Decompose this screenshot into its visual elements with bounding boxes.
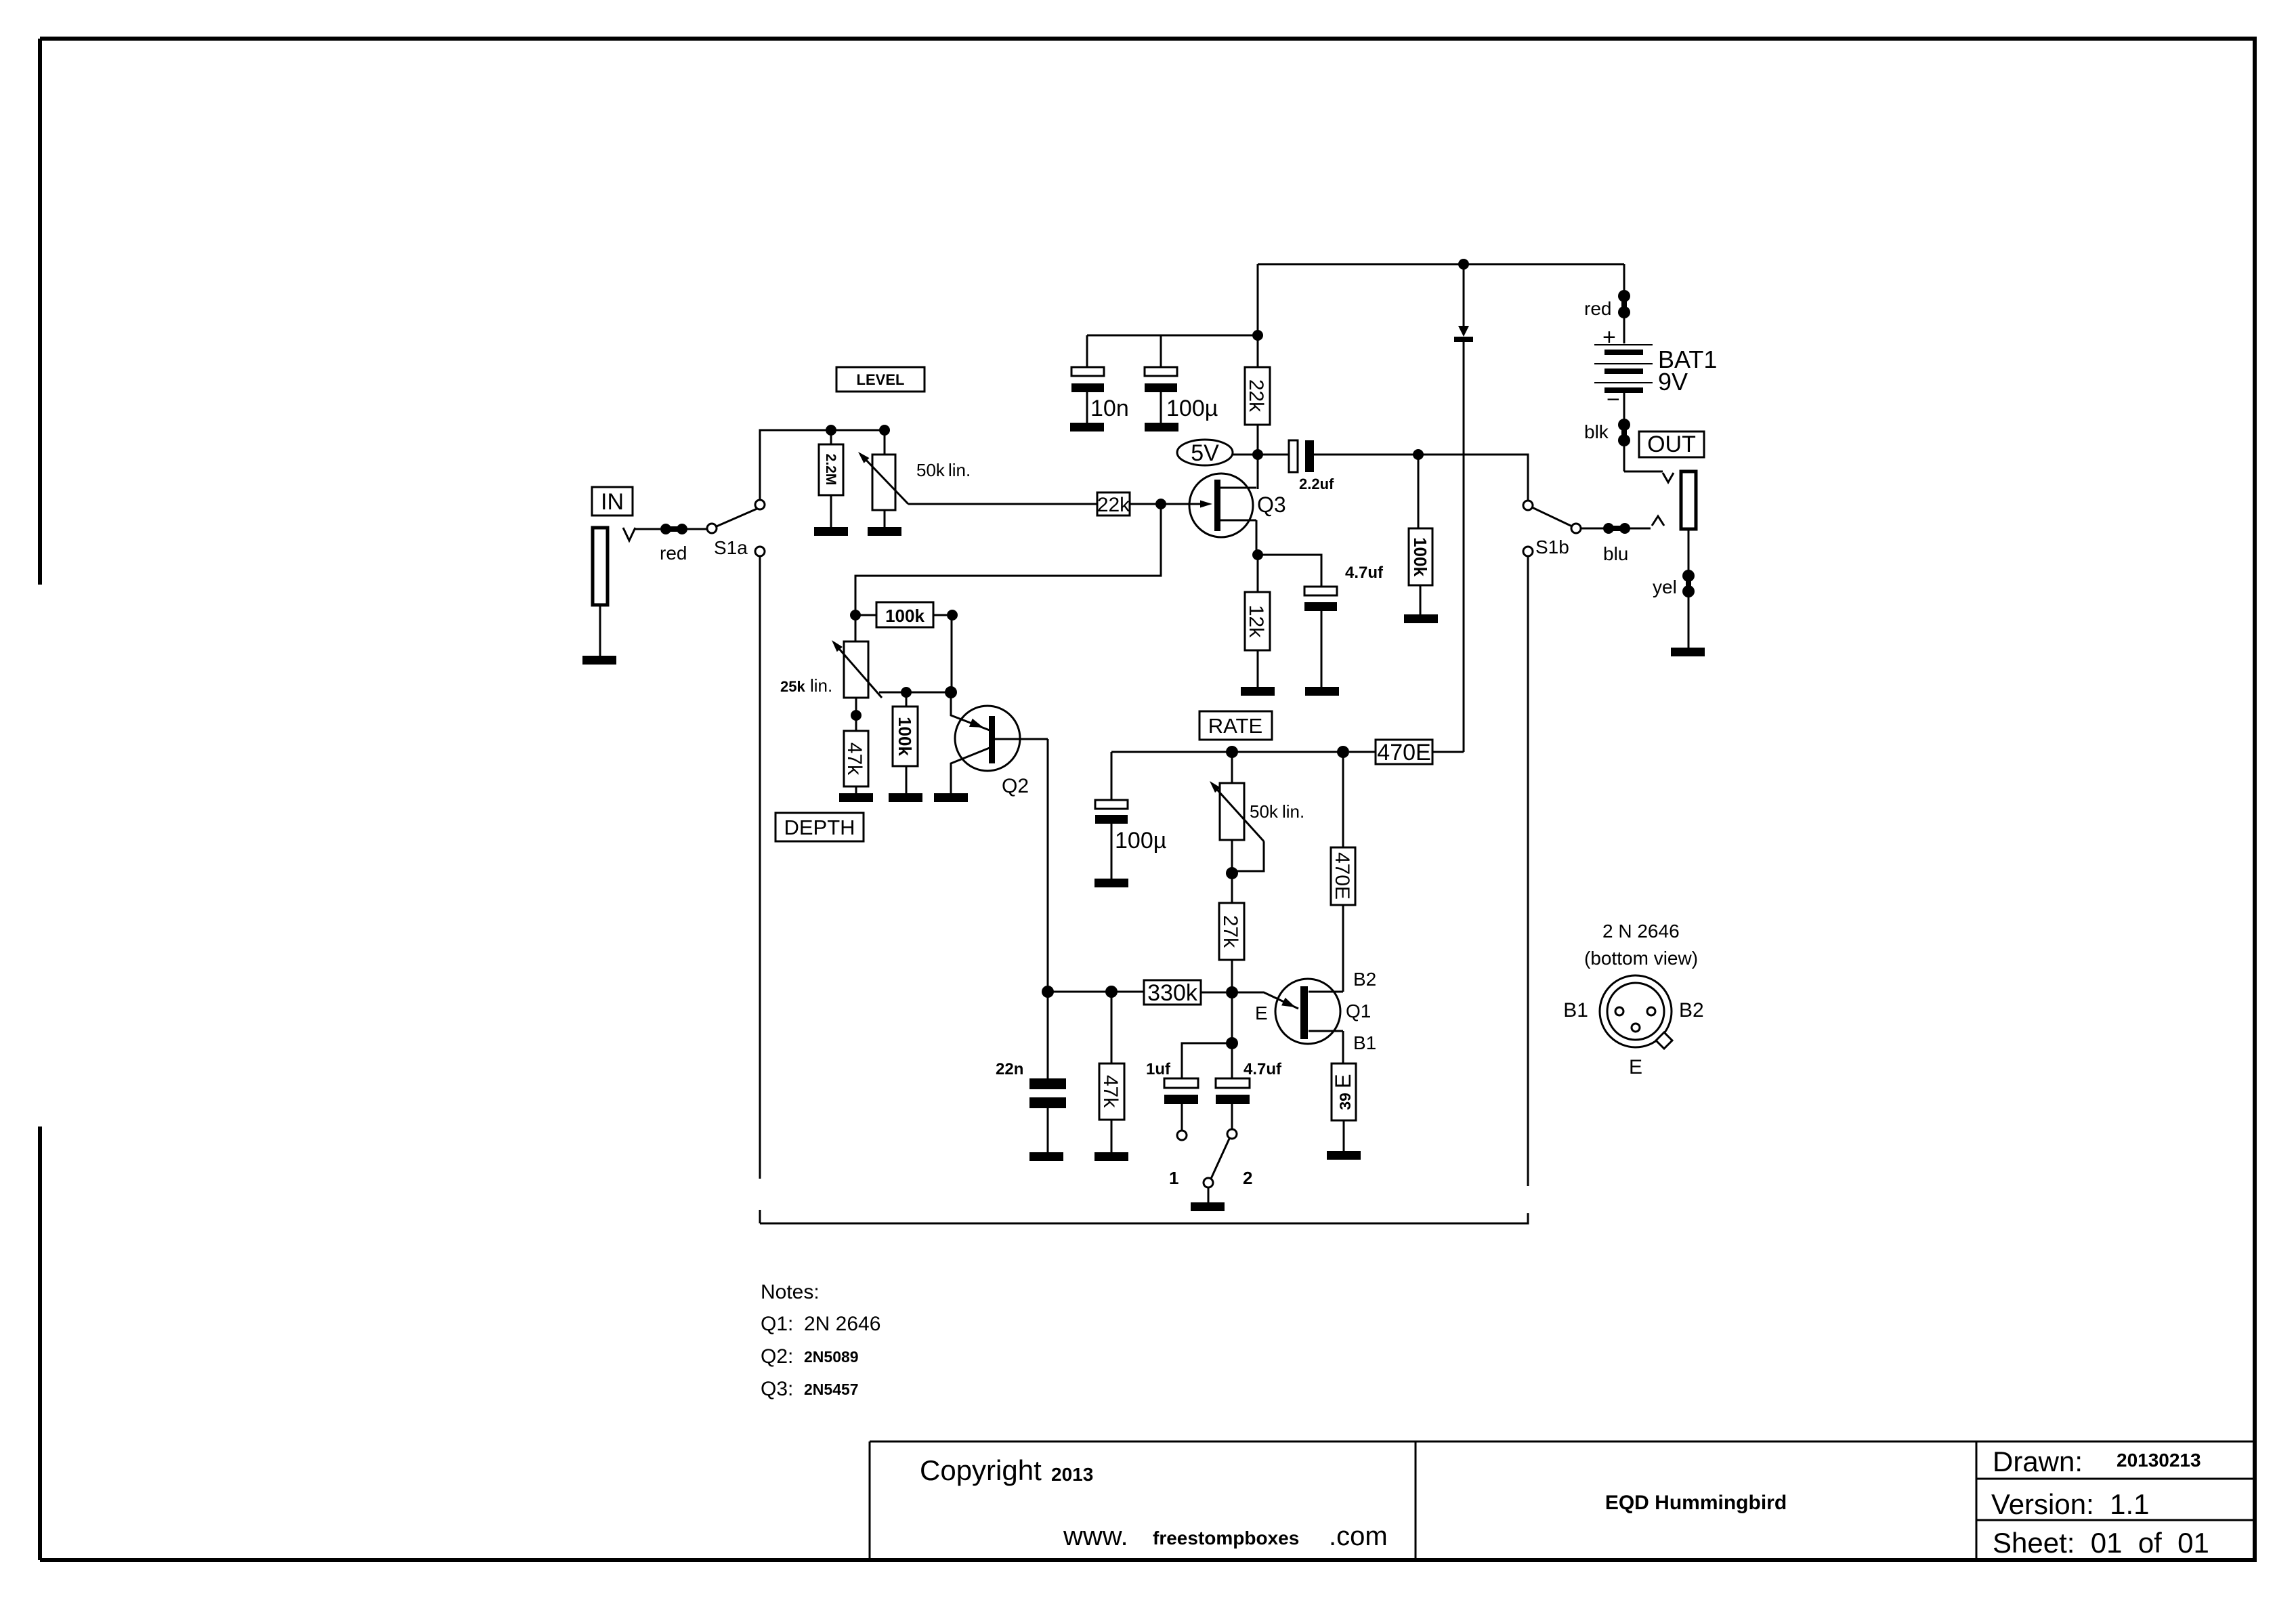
wire 470E to Q1 B2 xyxy=(1342,905,1344,992)
wire to 1uf xyxy=(1182,1043,1232,1078)
svg-text:47k: 47k xyxy=(843,742,866,776)
svg-text:100µ: 100µ xyxy=(1115,828,1166,854)
svg-text:Q3: Q3 xyxy=(1257,492,1286,517)
capacitor 22n xyxy=(1047,992,1049,1078)
node junction Q3 source xyxy=(1252,549,1263,560)
svg-text:Q1: Q1 xyxy=(1346,1001,1371,1022)
svg-text:22k: 22k xyxy=(1245,379,1267,413)
wire to 100u rate xyxy=(1111,752,1113,800)
svg-text:100µ: 100µ xyxy=(1166,396,1218,421)
resistor 39E xyxy=(1332,1064,1356,1120)
svg-text:50k: 50k xyxy=(916,460,945,480)
wire S1b to OUT tip xyxy=(1581,528,1651,530)
svg-text:2: 2 xyxy=(1243,1168,1252,1188)
wire rate rail xyxy=(1111,751,1343,753)
svg-text:2.2M: 2.2M xyxy=(823,454,838,486)
svg-text:Q2: Q2 xyxy=(1002,775,1029,797)
svg-text:yel: yel xyxy=(1653,576,1677,597)
resistor 22k vertical xyxy=(1245,367,1270,425)
node junction Q2 base/330k xyxy=(1042,986,1054,998)
wire 47k to ground xyxy=(855,786,857,793)
svg-text:blk: blk xyxy=(1584,421,1609,442)
svg-text:B2: B2 xyxy=(1353,969,1376,990)
wire 10n to ground xyxy=(1086,392,1088,423)
wire S1a up to level rail xyxy=(760,430,885,500)
wire 22k to 5V node xyxy=(1257,425,1259,489)
svg-text:E: E xyxy=(1255,1003,1268,1024)
yel wire splice dots xyxy=(1682,570,1695,582)
node junction 47k top xyxy=(1105,986,1118,998)
OUT jack tip contact xyxy=(1652,516,1664,526)
wire to 2.2M xyxy=(830,430,832,444)
wire down to wiper line xyxy=(951,615,953,692)
svg-text:22n: 22n xyxy=(996,1060,1023,1078)
wire Q3 source down xyxy=(1256,520,1258,592)
capacitor 100u supply xyxy=(1145,367,1177,376)
resistor 100k feedback xyxy=(876,602,933,627)
jack J2 OUT xyxy=(1681,471,1696,529)
node RATE label xyxy=(1199,711,1272,740)
wire 39E to ground xyxy=(1343,1120,1345,1151)
wire OUT jack sleeve xyxy=(1688,529,1690,648)
wire S1b lower to bottom rail xyxy=(760,556,1528,1223)
resistor 12k xyxy=(1245,592,1270,650)
svg-text:Version: 1.1: Version: 1.1 xyxy=(1991,1488,2149,1520)
svg-text:25k: 25k xyxy=(780,678,805,695)
ground below 2.2M xyxy=(814,527,848,536)
node junction wiper/Q2 emitter xyxy=(945,686,957,698)
transistor Q3 xyxy=(1189,473,1253,537)
potentiometer RATE 50k lin xyxy=(1231,752,1233,783)
ground below LEVEL pot xyxy=(868,527,901,536)
node junction 100k right xyxy=(947,610,958,620)
ground below 12k xyxy=(1241,687,1275,696)
svg-text:100k: 100k xyxy=(885,606,924,626)
svg-text:10n: 10n xyxy=(1090,396,1129,421)
svg-text:.com: .com xyxy=(1329,1521,1388,1551)
ground below 100u xyxy=(1145,423,1178,431)
wire cap rail xyxy=(1087,335,1258,337)
svg-text:S1b: S1b xyxy=(1535,536,1569,557)
node 5V xyxy=(1177,440,1233,465)
svg-text:lin.: lin. xyxy=(810,675,832,696)
svg-text:IN: IN xyxy=(601,489,624,515)
wire 100u to ground xyxy=(1160,392,1162,423)
node junction on level rail xyxy=(826,425,836,436)
wire B1 to 39E xyxy=(1342,1031,1344,1064)
OUT jack ring contact xyxy=(1663,473,1674,482)
wire 12k to ground xyxy=(1257,650,1259,687)
wire 4.7uf to ground xyxy=(1321,611,1323,687)
ground below 10n xyxy=(1070,423,1104,431)
svg-text:LEVEL: LEVEL xyxy=(857,371,905,388)
svg-text:Q2:: Q2: xyxy=(761,1345,793,1368)
node junction Q1 emitter xyxy=(1226,986,1238,998)
resistor 330k xyxy=(1144,980,1201,1005)
svg-text:22k: 22k xyxy=(1097,494,1130,516)
node junction 470E top xyxy=(1337,746,1349,758)
node LEVEL label xyxy=(836,367,924,392)
svg-text:330k: 330k xyxy=(1147,980,1198,1006)
svg-text:1uf: 1uf xyxy=(1146,1060,1171,1078)
svg-text:(bottom view): (bottom view) xyxy=(1584,948,1698,969)
svg-text:B1: B1 xyxy=(1353,1032,1376,1053)
svg-text:www.: www. xyxy=(1063,1521,1128,1551)
svg-text:OUT: OUT xyxy=(1647,431,1696,457)
svg-text:B1: B1 xyxy=(1563,999,1588,1022)
wire pot bottom to 27k xyxy=(1231,840,1233,903)
IN jack tip contact xyxy=(623,528,635,541)
svg-text:100k: 100k xyxy=(1410,537,1430,576)
svg-text:5V: 5V xyxy=(1191,440,1219,466)
svg-text:47k: 47k xyxy=(1099,1075,1122,1108)
wire 100k to ground xyxy=(906,766,908,793)
ground below 100k xyxy=(1404,614,1438,623)
ground below 39E xyxy=(1327,1151,1361,1160)
blk battery splice dots xyxy=(1618,419,1630,431)
node junction above 100k xyxy=(1413,449,1424,460)
ground IN jack xyxy=(582,656,616,665)
transistor Q2 xyxy=(955,706,1020,771)
resistor 470E vertical xyxy=(1342,752,1344,847)
svg-text:Drawn:: Drawn: xyxy=(1993,1446,2083,1477)
svg-text:Q3:: Q3: xyxy=(761,1378,793,1400)
wire to LEVEL pot xyxy=(884,430,886,455)
svg-text:2N5089: 2N5089 xyxy=(804,1348,859,1366)
svg-text:S1a: S1a xyxy=(714,537,748,558)
svg-text:1: 1 xyxy=(1169,1168,1178,1188)
resistor 100k output xyxy=(1409,528,1432,585)
potentiometer LEVEL 50k lin xyxy=(872,455,895,510)
wire source to 4.7uf xyxy=(1262,555,1321,587)
wire LEVEL wiper to 22k xyxy=(908,503,1097,505)
wire rail to battery xyxy=(1623,264,1625,343)
svg-text:red: red xyxy=(1584,298,1611,319)
svg-text:Sheet: 01 of 01: Sheet: 01 of 01 xyxy=(1993,1527,2209,1559)
svg-text:RATE: RATE xyxy=(1208,714,1262,738)
wire 100u to ground xyxy=(1111,824,1113,879)
svg-text:39 E: 39 E xyxy=(1331,1074,1355,1110)
transistor Q1 xyxy=(1275,979,1340,1044)
capacitor 4.7uf timing xyxy=(1216,1078,1250,1088)
switch S2 timing selector xyxy=(1211,1139,1229,1179)
potentiometer DEPTH 25k lin xyxy=(855,615,857,641)
resistor 100k depth divider xyxy=(906,692,908,707)
wire red xyxy=(682,528,708,530)
ground Q2 collector xyxy=(934,793,968,802)
wire 22k drop from rail xyxy=(1257,264,1259,367)
wire 25k wiper line xyxy=(879,692,951,694)
svg-text:E: E xyxy=(1629,1056,1642,1078)
wire 47k to ground xyxy=(1111,1120,1113,1152)
wire IN jack sleeve to ground xyxy=(599,605,601,656)
node DEPTH label xyxy=(775,813,864,841)
node junction timing caps xyxy=(1226,1037,1238,1049)
svg-text:27k: 27k xyxy=(1219,915,1241,948)
node junction cap rail xyxy=(1252,330,1263,341)
capacitor 10n xyxy=(1071,367,1104,376)
wire 22k to Q3 gate xyxy=(1130,503,1204,505)
jack J1 IN xyxy=(593,528,608,605)
ground below 100k divider xyxy=(889,793,922,802)
resistor 47k depth xyxy=(844,731,868,786)
wire 2.2M to ground xyxy=(830,495,832,527)
wire S1a lower to bottom rail xyxy=(759,556,761,1223)
svg-text:4.7uf: 4.7uf xyxy=(1243,1060,1282,1078)
ground below 22n xyxy=(1029,1152,1063,1161)
blu wire splice dots xyxy=(1603,523,1614,534)
wire RATE wiper loop xyxy=(1232,841,1264,871)
node junction depth top xyxy=(850,610,861,620)
diode D1 xyxy=(1463,264,1465,326)
capacitor 2.2uf xyxy=(1289,440,1298,472)
node junction wiper/bottom xyxy=(1226,867,1238,879)
svg-text:4.7uf: 4.7uf xyxy=(1345,564,1384,582)
switch S1b xyxy=(1523,501,1533,510)
ground below 47k osc xyxy=(1094,1152,1128,1161)
svg-text:EQD Hummingbird: EQD Hummingbird xyxy=(1605,1492,1787,1514)
svg-text:B2: B2 xyxy=(1679,999,1704,1022)
wire 100k to ground xyxy=(1420,585,1422,614)
capacitor 1uf xyxy=(1164,1078,1198,1088)
wire 25k to 47k xyxy=(855,698,857,731)
resistor 47k osc xyxy=(1111,992,1113,1064)
svg-text:freestompboxes: freestompboxes xyxy=(1153,1528,1299,1549)
wire to 100k xyxy=(1418,455,1420,528)
svg-text:lin.: lin. xyxy=(948,460,971,480)
wire LEVEL pot to ground xyxy=(884,510,886,527)
svg-text:2 N 2646: 2 N 2646 xyxy=(1602,921,1680,942)
ground below 4.7uf xyxy=(1305,687,1339,696)
red battery splice dots xyxy=(1618,290,1630,302)
svg-text:2N5457: 2N5457 xyxy=(804,1381,859,1398)
node IN label xyxy=(592,487,633,515)
capacitor 100u rate xyxy=(1095,800,1128,809)
svg-text:12k: 12k xyxy=(1245,605,1267,638)
svg-text:blu: blu xyxy=(1603,543,1628,564)
title block xyxy=(870,1441,2255,1560)
ground below 100u rate xyxy=(1094,879,1128,887)
red wire splice dots xyxy=(660,524,671,534)
node OUT label xyxy=(1639,431,1704,457)
wire gate junction down to depth feedback xyxy=(855,504,1161,615)
index tab xyxy=(1656,1032,1672,1049)
wire battery to OUT jack ring xyxy=(1624,471,1663,473)
capacitor 4.7uf source bypass xyxy=(1304,587,1337,595)
node junction wiper/100k xyxy=(901,687,912,698)
wire 22n to ground xyxy=(1047,1106,1049,1152)
wire 5V node to 2.2uf xyxy=(1262,454,1289,456)
wire 4.7uf to switch pole 2 xyxy=(1231,1104,1233,1129)
node junction below 25k xyxy=(851,710,862,721)
ground OUT jack xyxy=(1671,648,1705,656)
wire 330k rail xyxy=(1048,991,1144,993)
svg-text:2.2uf: 2.2uf xyxy=(1299,476,1334,492)
wire Q2 base down xyxy=(1047,739,1049,992)
svg-text:9V: 9V xyxy=(1658,368,1688,396)
wire battery minus xyxy=(1623,393,1625,471)
wire 1uf to switch pole 1 xyxy=(1181,1104,1183,1131)
pin B1 xyxy=(1615,1007,1623,1015)
svg-text:20130213: 20130213 xyxy=(2117,1450,2201,1471)
pin E xyxy=(1632,1024,1640,1032)
node junction at Q3 gate xyxy=(1155,499,1166,509)
svg-text:red: red xyxy=(660,543,687,564)
svg-text:−: − xyxy=(1607,387,1620,413)
svg-text:+: + xyxy=(1602,324,1616,350)
wire to 100u xyxy=(1160,335,1162,367)
wire tip to S1a xyxy=(634,528,660,530)
switch S1a xyxy=(707,524,717,533)
node junction diode top xyxy=(1458,259,1469,270)
svg-text:50k: 50k xyxy=(1250,801,1279,822)
wire to 10n xyxy=(1086,335,1088,367)
wire top supply rail xyxy=(1258,264,1624,266)
svg-text:2N 2646: 2N 2646 xyxy=(804,1313,880,1335)
ground switch common xyxy=(1191,1202,1225,1211)
pin B2 xyxy=(1647,1007,1655,1015)
svg-text:470E: 470E xyxy=(1377,740,1430,765)
ground below 47k xyxy=(839,793,873,802)
svg-text:470E: 470E xyxy=(1331,852,1353,900)
svg-text:lin.: lin. xyxy=(1282,801,1304,822)
svg-text:Copyright: Copyright xyxy=(920,1454,1042,1486)
resistor 470E horizontal xyxy=(1376,740,1432,764)
svg-text:Q1:: Q1: xyxy=(761,1313,793,1335)
resistor 22k (gate) xyxy=(1097,492,1130,515)
wire 2.2uf to S1b xyxy=(1314,455,1528,501)
resistor 27k xyxy=(1219,903,1244,960)
resistor 2.2M xyxy=(819,444,843,495)
wire switch common to ground xyxy=(1208,1187,1210,1202)
svg-text:2013: 2013 xyxy=(1051,1464,1093,1485)
node junction rate pot top xyxy=(1226,746,1238,758)
svg-text:Notes:: Notes: xyxy=(761,1281,820,1303)
svg-text:DEPTH: DEPTH xyxy=(784,816,855,839)
svg-text:100k: 100k xyxy=(895,717,915,756)
wire 27k to emitter node xyxy=(1231,960,1233,992)
